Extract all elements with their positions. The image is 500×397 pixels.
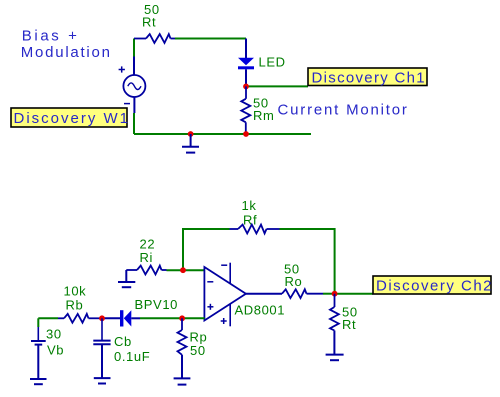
resistor Rt2 <box>330 294 339 331</box>
node ground junction <box>188 131 194 137</box>
svg-text:Bias +: Bias + <box>22 28 80 45</box>
ground at Ri <box>118 270 135 287</box>
resistor Rm <box>241 86 250 134</box>
svg-text:1k: 1k <box>242 198 257 213</box>
svg-text:AD8001: AD8001 <box>235 303 286 318</box>
wire LED branch vertical top <box>245 39 247 59</box>
svg-text:10k: 10k <box>64 284 87 299</box>
svg-text:Current Monitor: Current Monitor <box>278 101 409 118</box>
wire top horizontal to LED branch <box>175 38 246 40</box>
op-amp V+ supply pin <box>221 304 231 326</box>
text Bias + Modulation <box>21 28 112 62</box>
svg-text:Discovery Ch2: Discovery Ch2 <box>376 278 493 295</box>
wire photodiode to op-amp non-inverting input <box>131 317 204 319</box>
battery Vb <box>31 318 46 344</box>
source W1 minus marker <box>124 103 130 105</box>
label Discovery W1 <box>11 108 130 127</box>
svg-text:30: 30 <box>46 327 62 342</box>
wire LED to node <box>245 69 247 86</box>
resistor Rt <box>134 34 175 43</box>
wire output node to Discovery Ch2 <box>335 293 373 295</box>
svg-text:Rf: Rf <box>243 213 257 228</box>
wire op-amp output <box>246 293 282 295</box>
resistor Rp <box>178 318 187 355</box>
svg-text:LED: LED <box>259 55 286 70</box>
svg-text:Rm: Rm <box>253 108 274 123</box>
node LED/Rm junction <box>243 84 249 90</box>
node inverting input junction <box>180 267 186 273</box>
label Discovery Ch1 <box>308 68 427 86</box>
wire feedback left vertical <box>183 229 230 270</box>
wire Rb node to photodiode <box>102 317 120 319</box>
svg-text:50: 50 <box>190 343 206 358</box>
ground at Cb <box>94 344 111 383</box>
svg-text:Vb: Vb <box>47 343 64 358</box>
ground top circuit <box>182 134 199 153</box>
capacitor Cb <box>93 318 110 344</box>
svg-text:BPV10: BPV10 <box>135 297 178 312</box>
svg-text:Rt: Rt <box>342 317 356 332</box>
op-amp V- supply pin <box>221 263 230 284</box>
resistor Rf <box>230 225 280 234</box>
resistor Ri <box>126 266 166 275</box>
resistor Rb <box>58 314 102 323</box>
svg-text:Discovery W1: Discovery W1 <box>14 110 131 127</box>
node output junction <box>332 291 338 297</box>
wire top-left vertical (W1 to Rt corner) <box>133 39 135 76</box>
ground at battery <box>30 345 47 385</box>
svg-text:Rt: Rt <box>142 15 156 30</box>
svg-text:Discovery Ch1: Discovery Ch1 <box>312 69 426 86</box>
svg-text:Ro: Ro <box>285 274 303 289</box>
node photodiode/Rp junction <box>179 315 185 321</box>
photodiode D2 BPV10 <box>120 310 131 326</box>
svg-text:Rb: Rb <box>66 298 84 313</box>
source W1 (sine generator) <box>123 75 145 97</box>
LED D1 <box>238 58 254 70</box>
resistor Ro <box>282 289 323 298</box>
label Discovery Ch2 <box>373 276 493 295</box>
wire Ri to op-amp inverting input <box>167 269 205 271</box>
wire below source <box>133 97 135 134</box>
svg-text:0.1uF: 0.1uF <box>114 349 150 364</box>
op-amp U1 AD8001 <box>204 267 246 321</box>
svg-text:Modulation: Modulation <box>21 44 112 61</box>
source W1 plus marker <box>119 66 125 72</box>
node Rm bottom junction <box>243 131 249 137</box>
ground at Rt2 <box>326 331 344 361</box>
ground at Rp <box>174 355 191 385</box>
wire bottom of top circuit <box>134 133 311 135</box>
wire Ro to output node <box>323 293 335 295</box>
wire feedback right vertical <box>280 229 335 294</box>
wire battery to Rb <box>38 317 58 319</box>
node Rb/Cb junction <box>99 315 105 321</box>
svg-text:Cb: Cb <box>114 334 132 349</box>
svg-text:Ri: Ri <box>140 250 153 265</box>
wire node to Discovery Ch1 <box>246 85 308 87</box>
